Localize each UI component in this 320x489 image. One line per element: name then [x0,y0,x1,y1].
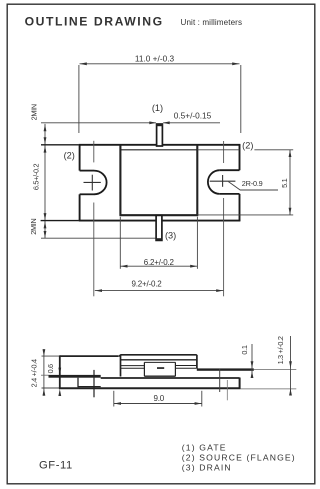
left slot centerline [93,141,95,296]
svg-text:Unit : millimeters: Unit : millimeters [181,18,243,27]
joint between body top and cap [118,355,120,357]
svg-text:2.4 +/-0.4: 2.4 +/-0.4 [29,359,38,387]
right slot center mark [210,175,236,187]
package left edge [59,355,61,388]
svg-text:(3): (3) [165,230,176,240]
svg-text:9.2+/-0.2: 9.2+/-0.2 [131,280,162,289]
ceramic edge left (side view) [93,370,95,397]
centerline right (side view) [226,380,228,400]
dimension 0.1 lead thickness [251,344,253,378]
svg-text:(1): (1) [152,103,163,113]
svg-text:2MIN: 2MIN [29,218,38,234]
dimension 9.2+/-0.2 [95,290,224,292]
ceramic edge right (side view) [219,369,221,392]
left lead (side view) [41,374,49,376]
left slot center mark [84,175,101,191]
svg-text:(2): (2) [64,151,75,161]
svg-text:5.1: 5.1 [280,178,289,187]
svg-text:(2): (2) [242,141,253,151]
internal lead shelf left [121,366,145,369]
flange (2) outline [41,144,241,221]
left mounting slot [80,171,107,195]
body left edge (side view) [120,355,122,377]
flange top (side view) [101,377,240,379]
dimension 5.1 right [197,150,293,215]
internal lead shelf right [176,366,197,369]
right lead extension line [254,368,296,370]
die mark inside cavity [157,367,164,369]
svg-text:1.3 +/-0.2: 1.3 +/-0.2 [276,336,285,364]
svg-text:0.1: 0.1 [240,345,249,354]
flange bottom extension right [240,388,296,390]
svg-text:9.0: 9.0 [154,394,165,403]
lead (3) drain [156,215,162,240]
svg-text:(3) DRAIN: (3) DRAIN [182,463,232,473]
svg-text:GF-11: GF-11 [39,460,73,472]
cap inner cavity box [144,362,175,376]
lead (1) gate [157,124,163,146]
svg-text:(2) SOURCE (FLANGE): (2) SOURCE (FLANGE) [182,453,296,463]
svg-text:2MIN: 2MIN [29,104,38,120]
cap lower line [120,359,197,361]
dimension 11.0+/-0.3 [79,64,241,133]
svg-text:6.5+/-0.2: 6.5+/-0.2 [32,164,41,191]
dimension 6.2+/-0.2 [120,217,197,269]
cap (lid) top [120,354,197,356]
flange bottom (side view) [59,387,241,389]
flange tab step left [77,378,79,388]
dimension 9.0 [114,391,202,407]
flange right edge (side view) [239,378,241,390]
right mounting slot [208,170,240,194]
package body top line (left portion) [60,355,119,357]
svg-text:11.0 +/-0.3: 11.0 +/-0.3 [135,54,175,64]
dimension 1.3+/-0.2 [290,336,292,395]
dimension 2.4+/-0.4 [42,349,60,396]
svg-text:0.6: 0.6 [46,364,55,373]
svg-text:6.2+/-0.2: 6.2+/-0.2 [144,258,175,267]
dimension 0.6 [58,368,61,375]
dimension 0.5+/-0.15 lead width, leader line [41,122,220,124]
svg-text:(1) GATE: (1) GATE [182,442,227,452]
left dimension column: 2MIN / 6.5+/-0.2 / 2MIN [41,124,156,238]
svg-text:0.5+/-0.15: 0.5+/-0.15 [174,111,212,121]
body right edge (side view) [196,355,198,369]
ceramic body outline [120,145,199,216]
right slot centerline [223,141,225,296]
right lead (side view) [197,368,254,370]
2R-0.9 leader and label [228,182,278,190]
svg-text:2R-0.9: 2R-0.9 [242,179,263,188]
svg-text:OUTLINE DRAWING: OUTLINE DRAWING [25,14,164,28]
